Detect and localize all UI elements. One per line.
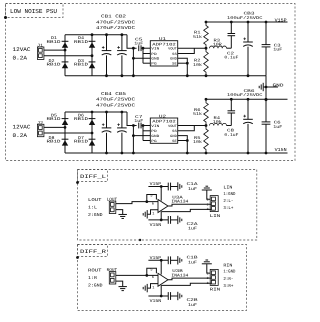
wire CB5 lower lead [121,133,123,153]
svg-text:1uF: 1uF [188,187,198,192]
wire amp output [168,204,211,206]
capacitor C2 branch [230,36,232,49]
node CB2 top [121,33,124,36]
diode D2 [62,62,69,68]
wire C2A to earth [171,219,178,221]
node C8 at rail [230,98,233,101]
wire bridge right leg [91,112,93,153]
node GND bus at ch2 rail [265,98,268,101]
wire V- into amp [160,285,162,296]
diode D7 value label [74,136,89,145]
svg-text:C2A: C2A [187,222,199,227]
svg-text:LIN: LIN [223,186,232,191]
capacitor C2 label [224,51,239,60]
LIN pin numbers [207,198,209,212]
wire GND tap stub [266,86,278,88]
wire LOUT pin1 to amp [116,202,158,204]
svg-text:1:L: 1:L [88,206,97,211]
wire VIN to GND-pin branch [132,48,134,58]
svg-text:5: 5 [150,267,152,272]
svg-text:C2: C2 [227,51,235,56]
node V- tap [160,219,163,222]
wire C2 to rail [230,22,232,34]
svg-text:PD: PD [151,129,156,134]
capacitor C7 [139,123,141,129]
resistor R3 label [213,39,223,48]
svg-text:12VAC: 12VAC [13,123,32,130]
svg-text:470uF/25VDC: 470uF/25VDC [96,97,135,103]
node CB4 bottom [105,152,108,155]
svg-text:1:GND: 1:GND [223,270,235,275]
node AC1 J2-1 [64,126,67,129]
svg-text:3:L+: 3:L+ [223,206,233,211]
diode D8 value label [47,136,62,145]
connector RIN [210,269,218,285]
label ROUT pinout [88,268,103,288]
node DIFF_R title corner [76,256,79,259]
wire V+ rail [148,259,168,261]
ground at C2B [178,292,182,300]
capacitor C1B label [187,256,199,266]
svg-text:LOUT: LOUT [88,198,102,203]
diode D7 [89,139,96,145]
wire GND bus [265,76,267,100]
wire series out [227,125,232,127]
node sense branch [145,274,148,277]
wire J pin2 to bridge AC2 [44,132,92,134]
capacitor C3 label [273,43,283,52]
node R5 at bottom rail [205,152,208,155]
title box LOW NOISE PSU [6,4,64,18]
svg-text:0.2A: 0.2A [13,55,28,62]
svg-text:SE: SE [172,62,177,67]
wire ROUT pin1 to amp [116,274,158,276]
diode D1 [62,41,69,47]
wire C2B to earth [171,295,178,297]
node C6 at rail [265,98,268,101]
svg-text:C8: C8 [227,129,235,134]
op-amp U3B [158,273,168,286]
svg-text:R1: R1 [194,31,201,36]
node AC2 J2-2 [91,132,94,135]
svg-text:RB1D: RB1D [74,140,89,145]
wire series out [227,47,232,49]
svg-text:0.1uF: 0.1uF [224,56,239,61]
svg-text:R6: R6 [194,108,201,113]
wire V+ into amp [160,260,162,274]
wire amp output [168,278,211,280]
connector J2 12VAC input [37,121,44,137]
svg-text:C1B: C1B [187,256,199,261]
capacitor CB2 [117,46,127,55]
wire CB4 lower lead [106,133,108,153]
svg-text:ROUT: ROUT [88,268,102,273]
svg-text:470uF/25VDC: 470uF/25VDC [96,103,135,109]
capacitor CB6 label [227,89,263,98]
wire PD pin stub [143,130,150,132]
svg-text:V15P: V15P [275,17,287,23]
title box DIFF_L [78,170,108,182]
svg-text:C6: C6 [274,121,282,126]
svg-text:U3A: U3A [172,195,183,200]
capacitor C5 [139,45,141,51]
node CB4 top [105,111,108,114]
svg-text:VIN: VIN [151,124,159,129]
wire SS jog [178,126,195,131]
wire pin4 stub right [178,140,188,142]
capacitor C3 [262,45,271,47]
diode D4 [89,41,96,47]
node VIN branch [132,124,135,127]
ground at C1B [178,256,182,264]
node V+ tap [160,259,163,262]
resistor R1 [204,22,209,48]
resistor R5 [204,126,209,154]
ground above RIN [202,260,212,264]
node C3 at rail [265,21,268,24]
wire GND pin stub [133,135,150,137]
svg-text:2:L-: 2:L- [223,199,233,204]
connector LIN [210,196,218,212]
svg-text:5: 5 [150,194,152,199]
svg-text:V15N: V15N [150,223,162,228]
svg-text:R5: R5 [194,136,201,141]
PSU section dashed border [6,4,296,161]
svg-text:C1A: C1A [187,182,199,187]
ground at REF input [143,210,147,218]
wire output pin3 link [162,209,211,211]
svg-text:RB1D: RB1D [47,62,62,67]
diode D1 value label [47,36,62,45]
node CB2 bottom [121,74,124,77]
node top rail left end [205,21,208,24]
ground earth symbol at GND tap [259,83,266,91]
capacitor C1B [168,256,170,264]
svg-text:1uF: 1uF [273,48,283,53]
resistor R3 series [210,46,227,48]
wire branch to bottom rail [132,58,134,75]
capacitor CB4 [102,123,112,132]
regulator U1 body [150,41,177,66]
diode D3 [89,62,96,68]
svg-text:1uF: 1uF [188,261,198,266]
node branch at bottom rail [132,74,135,77]
svg-text:SE: SE [172,139,177,144]
svg-text:GND: GND [273,83,285,88]
wire VIN to GND-pin branch [132,126,134,136]
svg-text:RB1D: RB1D [47,40,62,45]
wire J pin2 to bridge AC2 [44,55,92,57]
wire output rail [206,21,288,23]
wire CB4 upper lead [106,112,108,128]
svg-text:2:GND: 2:GND [88,283,103,288]
capacitor C6 label [273,121,283,130]
node V15N rail C6 [265,152,268,155]
svg-text:RB1D: RB1D [74,117,89,122]
wire C6 lower lead [265,124,267,153]
wire REF input [148,210,158,215]
svg-text:U2: U2 [159,114,167,119]
capacitor CB6 [243,115,253,124]
svg-text:3:R+: 3:R+ [223,284,233,289]
node regulator ground at rail [186,74,189,77]
capacitor C2A label [187,222,199,232]
wire ROUT pin2 to ground [116,281,123,286]
svg-text:PG: PG [151,139,156,144]
node GND pin branch [132,57,135,60]
svg-text:6: 6 [152,275,154,280]
svg-text:RB1D: RB1D [74,40,89,45]
wire pin4 stub [143,62,150,64]
node C2 at rail [230,21,233,24]
capacitor CB1 CB2 labels [96,15,135,32]
diode D2 value label [47,59,62,68]
capacitor CB1 [102,46,112,55]
connector ROUT [109,272,116,284]
resistor R1 label [193,31,203,40]
wire bridge + rail [65,34,127,36]
capacitor C1A label [187,182,199,192]
capacitor C8 branch [230,113,232,126]
wire + rail corner down [127,35,137,49]
node bridge + rail at right leg [91,111,94,114]
wire pin4 stub [143,140,150,142]
wire C8 to rail [230,99,232,111]
wire CB2 upper lead [121,35,123,51]
node DIFF_L title corner [76,181,79,184]
node GND vertical at pin4 [186,62,189,65]
svg-text:SS: SS [172,52,177,57]
section box DIFF_R [78,245,247,311]
svg-text:C3: C3 [274,43,282,48]
svg-text:3: 3 [207,281,209,285]
svg-text:GND: GND [151,57,159,62]
svg-text:GND: GND [151,134,159,139]
wire REF input [148,284,158,289]
wire CB6 lower lead [247,124,249,153]
node top rail left end [205,98,208,101]
svg-text:RIN: RIN [210,288,221,293]
svg-text:VIN: VIN [151,47,159,52]
wire CB6 upper lead [247,99,249,119]
node CB1 bottom [105,74,108,77]
wire C1B to earth [171,259,178,261]
wire RIN pin1 to ground [207,264,210,273]
wire + rail corner down [127,112,137,126]
svg-text:1uF: 1uF [273,125,283,130]
node CB3 at bottom rail [247,74,250,77]
svg-text:2: 2 [207,202,209,206]
wire PD pin stub [143,53,150,55]
wire LOUT pin2 to ground [116,210,123,214]
wire CB3 lower lead [247,47,249,76]
RIN pin numbers [207,271,209,285]
svg-text:2: 2 [207,276,209,280]
capacitor CB4 CB5 labels [96,92,135,109]
wire cap to VIN pin [143,125,150,127]
node VIN-EN tie [142,47,145,50]
svg-text:U3B: U3B [172,269,183,274]
wire CB2 lower lead [121,55,123,75]
wire sense loop [147,195,157,202]
svg-text:VOUT: VOUT [168,124,177,129]
svg-text:RIN: RIN [223,263,232,268]
resistor R6 [204,99,209,125]
svg-text:2:GND: 2:GND [88,213,103,218]
ground at C1A [178,182,182,190]
svg-text:LIN: LIN [210,214,221,219]
wire output rail [206,98,288,100]
wire V- into amp [160,211,162,220]
node VIN-EN tie [142,124,145,127]
capacitor C5 label [134,38,144,47]
capacitor C2B label [187,298,199,308]
svg-text:1:GND: 1:GND [223,192,235,197]
wire cap to VIN pin [143,47,150,49]
capacitor C8 label [224,129,239,138]
ground at ROUT [119,287,127,291]
node GND vertical at pin4 [186,139,189,142]
wire J pin1 to bridge AC1 [44,49,65,51]
capacitor C8 [228,111,236,113]
wire sense loop [147,268,157,275]
node VOUT divider junction [205,47,208,50]
capacitor C7 label [134,115,144,124]
label LOUT pinout [88,198,103,218]
svg-text:0.2A: 0.2A [13,132,28,139]
resistor R4 label [213,116,223,125]
node GND tap [265,86,268,89]
svg-text:1: 1 [152,285,154,290]
wire bridge left leg [64,112,66,153]
svg-text:1uF: 1uF [188,227,198,232]
wire V15N rail [65,152,288,154]
svg-text:R2: R2 [194,59,201,64]
node CB3 at rail [247,21,250,24]
svg-text:CB1 CB2: CB1 CB2 [101,15,126,20]
label RIN pinout [223,263,235,289]
svg-text:1: 1 [152,212,154,217]
node sense branch [145,200,148,203]
capacitor C6 [262,122,271,124]
regulator U2 body [150,118,177,143]
node regulator ground at rail [186,152,189,155]
svg-text:2:R-: 2:R- [223,277,233,282]
svg-text:RB1D: RB1D [47,140,62,145]
node CB1 top [105,33,108,36]
wire ground rail [65,75,266,77]
svg-text:GND: GND [170,134,177,139]
svg-text:PD: PD [151,52,156,57]
wire C3 upper lead [265,22,267,45]
svg-text:DIFF_L: DIFF_L [80,174,106,180]
node CB6 at bottom rail [247,152,250,155]
connector J1 12VAC input [37,44,44,60]
wire LIN pin1 to ground [207,190,210,199]
wire CB1 upper lead [106,35,108,51]
wire V+ into amp [160,187,162,201]
svg-text:U1: U1 [159,37,167,42]
node on DIFF_L bottom edge [139,239,141,241]
svg-text:3: 3 [207,207,209,211]
wire EN tie vertical [142,48,144,63]
wire CB5 upper lead [121,112,123,128]
op-amp U3A [158,200,168,213]
wire VOUT line [178,47,206,49]
diode D8 [62,139,69,145]
wire C3 lower lead [265,47,267,76]
wire GND pin to rail [178,58,188,75]
node CB5 top [121,111,124,114]
svg-text:C2B: C2B [187,298,199,303]
node branch at bottom rail [132,152,135,155]
wire C1A to earth [171,186,178,188]
node VIN branch [132,47,135,50]
node bridge + rail at right leg [91,33,94,36]
wire bridge right leg [91,35,93,76]
node VOUT divider junction [205,124,208,127]
node R2 at bottom rail [205,74,208,77]
wire CB1 lower lead [106,55,108,75]
capacitor C2 [228,34,236,36]
section box DIFF_L [78,170,257,241]
wire bridge + rail [65,111,127,113]
capacitor CB5 [117,123,127,132]
wire pin4 stub right [178,62,188,64]
svg-text:V15N: V15N [150,299,162,304]
capacitor CB3 label [227,12,263,21]
resistor R4 series [210,123,227,125]
svg-text:GND: GND [170,57,177,62]
resistor R5 label [193,136,203,145]
svg-text:1uF: 1uF [188,303,198,308]
svg-text:ADP7102: ADP7102 [152,42,176,47]
ground at LOUT [119,214,127,218]
svg-text:6: 6 [152,201,154,206]
svg-text:J1: J1 [37,44,44,49]
wire V- rail [148,295,168,297]
node V- tap [160,295,163,298]
title box DIFF_R [78,245,108,257]
node at title box corner [4,16,7,19]
wire GND pin stub [133,57,150,59]
svg-text:CB4 CB5: CB4 CB5 [101,92,126,97]
wire CB3 upper lead [247,22,249,42]
svg-text:RB1D: RB1D [47,117,62,122]
wire V- rail [148,219,168,221]
node AC2 J1-2 [91,54,94,57]
wire J pin1 to bridge AC1 [44,126,65,128]
ground above LIN [202,186,212,190]
wire SS jog [178,48,195,53]
wire bridge left leg [64,35,66,76]
wire V+ rail [148,186,168,188]
svg-text:RB1D: RB1D [74,62,89,67]
svg-text:ADP7102: ADP7102 [152,120,176,125]
op-amp U3B designator [171,269,189,278]
svg-text:12VAC: 12VAC [13,46,32,53]
svg-text:0.1uF: 0.1uF [224,133,239,138]
capacitor CB3 [243,38,253,47]
svg-text:1:R: 1:R [88,276,97,281]
wire output pin3 link [162,283,211,285]
node AC1 J1-1 [64,49,67,52]
svg-text:LOW NOISE PSU: LOW NOISE PSU [10,8,57,15]
resistor R2 [204,48,209,75]
op-amp U3A designator [171,195,189,204]
ground at C2A [178,216,182,224]
svg-text:DIFF_R: DIFF_R [80,249,106,255]
